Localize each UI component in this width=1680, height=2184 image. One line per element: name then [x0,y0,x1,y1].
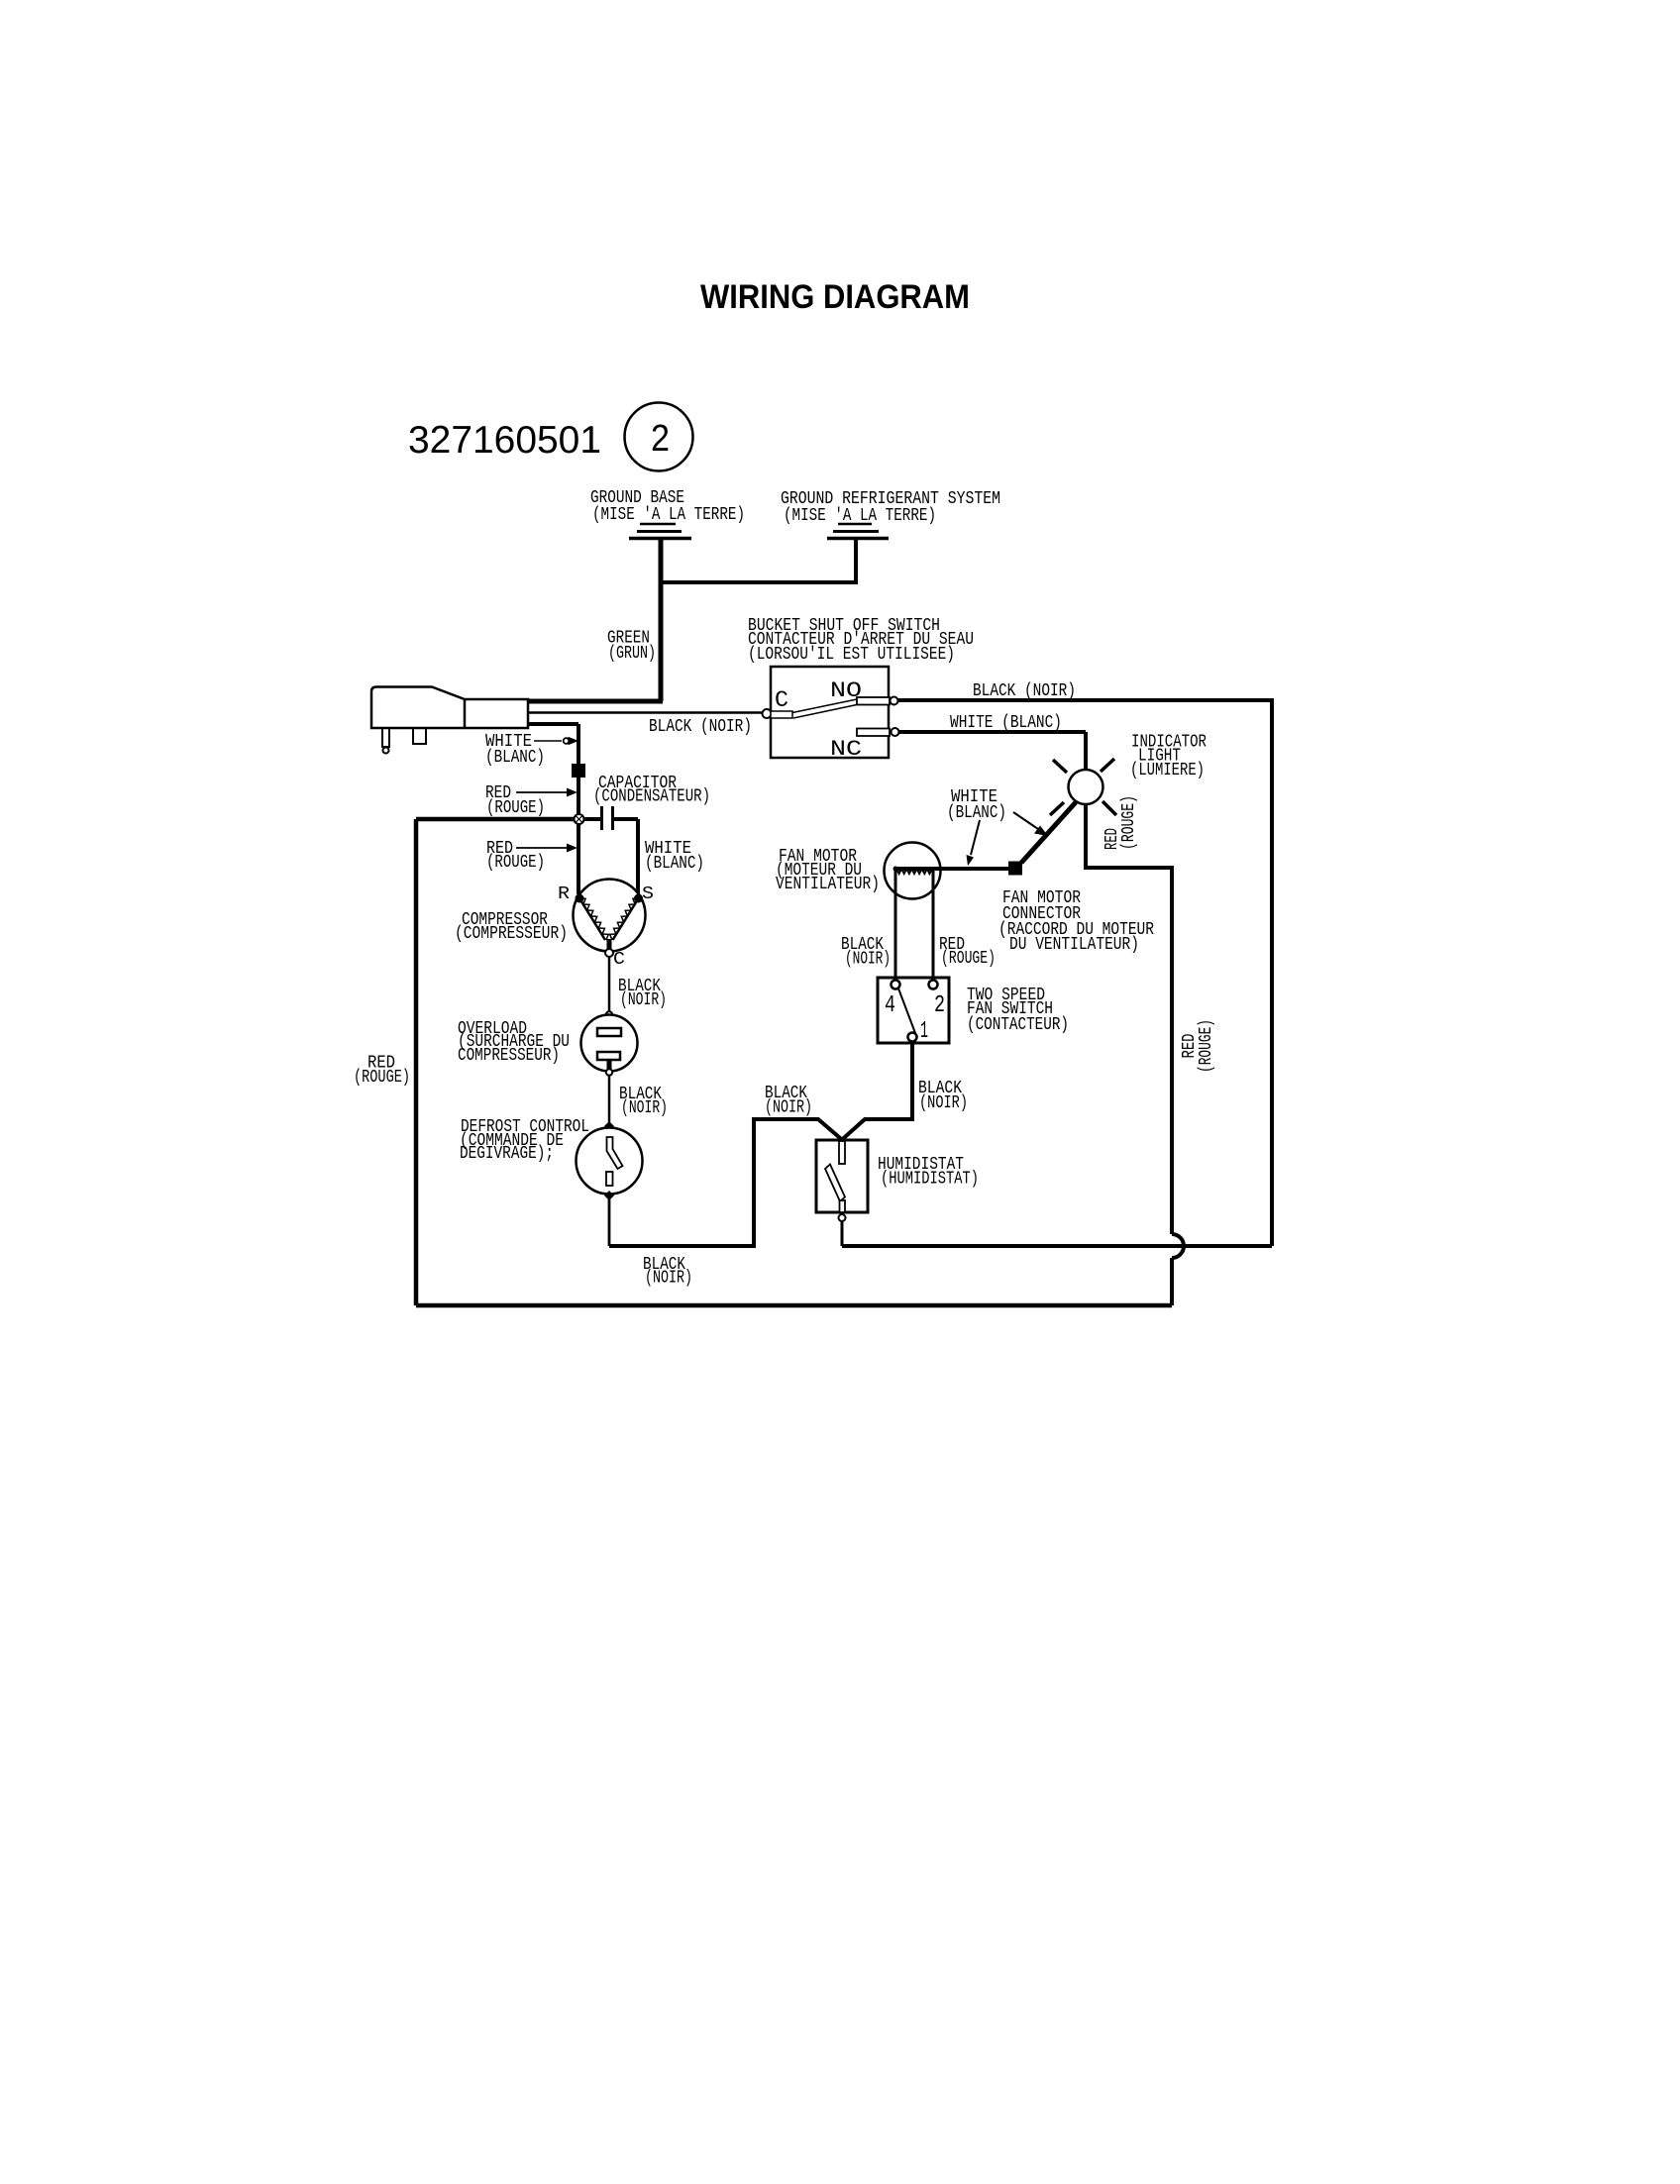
svg-text:BLACK (NOIR): BLACK (NOIR) [973,681,1076,701]
svg-text:(ROUGE): (ROUGE) [941,949,996,969]
svg-text:4: 4 [885,992,895,1019]
svg-text:2: 2 [934,992,945,1019]
svg-text:(NOIR): (NOIR) [620,990,667,1010]
svg-text:(BLANC): (BLANC) [947,803,1006,823]
svg-text:BLACK (NOIR): BLACK (NOIR) [649,717,752,737]
svg-text:R: R [558,884,570,904]
svg-text:COMPRESSEUR): COMPRESSEUR) [458,1046,560,1066]
svg-text:2: 2 [651,418,670,460]
svg-text:(MISE 'A LA TERRE): (MISE 'A LA TERRE) [784,506,936,526]
svg-text:(ROUGE): (ROUGE) [354,1068,410,1088]
svg-text:C: C [613,950,625,970]
svg-text:(HUMIDISTAT): (HUMIDISTAT) [881,1170,979,1190]
svg-text:C: C [775,687,788,713]
svg-text:NO: NO [830,678,862,703]
svg-text:(NOIR): (NOIR) [845,950,891,970]
svg-text:1: 1 [920,1018,928,1045]
svg-text:(NOIR): (NOIR) [645,1269,692,1289]
svg-text:(MISE 'A LA TERRE): (MISE 'A LA TERRE) [592,505,745,525]
svg-text:327160501: 327160501 [408,419,601,462]
svg-text:(NOIR): (NOIR) [765,1098,812,1118]
svg-text:(LUMIERE): (LUMIERE) [1130,761,1205,780]
svg-text:(ROUGE): (ROUGE) [486,853,545,873]
svg-text:(ROUGE): (ROUGE) [486,798,545,818]
svg-text:(CONTACTEUR): (CONTACTEUR) [967,1015,1069,1035]
svg-text:S: S [642,884,654,904]
svg-text:(COMPRESSEUR): (COMPRESSEUR) [455,924,568,944]
svg-text:(LORSOU'IL EST UTILISEE): (LORSOU'IL EST UTILISEE) [748,645,955,665]
svg-text:(NOIR): (NOIR) [919,1093,968,1113]
svg-text:WIRING DIAGRAM: WIRING DIAGRAM [700,278,970,316]
svg-text:(NOIR): (NOIR) [621,1098,668,1118]
svg-text:DEGIVRAGE);: DEGIVRAGE); [460,1144,554,1164]
svg-text:(GRUN): (GRUN) [608,644,656,664]
svg-text:DU VENTILATEUR): DU VENTILATEUR) [1009,935,1139,955]
svg-text:(ROUGE): (ROUGE) [1119,795,1139,850]
svg-text:(CONDENSATEUR): (CONDENSATEUR) [593,787,710,807]
svg-text:NC: NC [830,737,862,762]
svg-text:WHITE (BLANC): WHITE (BLANC) [950,713,1062,733]
svg-text:(BLANC): (BLANC) [485,748,545,768]
svg-text:(ROUGE): (ROUGE) [1197,1019,1216,1073]
svg-text:VENTILATEUR): VENTILATEUR) [776,875,880,894]
svg-text:(BLANC): (BLANC) [645,854,704,874]
